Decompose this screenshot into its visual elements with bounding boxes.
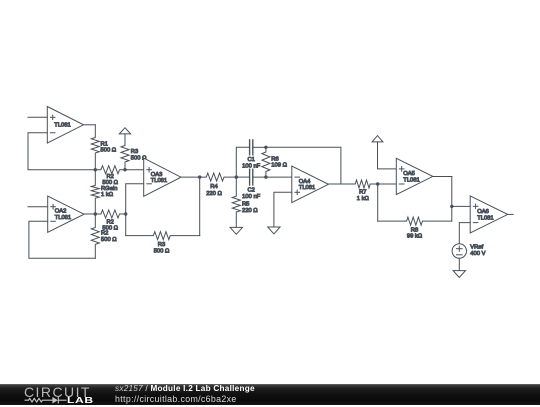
wire OA4 non-inverting input to ground bbox=[274, 192, 292, 227]
wire OA5 feedback down leg bbox=[377, 184, 379, 221]
wire C2 to OA4 inverting input bbox=[253, 176, 292, 178]
resistor R2 500 Ohm (horizontal, node B to OA3 - net) bbox=[95, 210, 125, 231]
logo diode symbol bbox=[52, 397, 58, 404]
logo schematic line (resistor + diode) bbox=[24, 394, 68, 407]
op-amp OA2 (TL081) bbox=[48, 196, 84, 232]
wire C1 to R6 top bbox=[253, 146, 266, 148]
svg-text:OA5: OA5 bbox=[403, 171, 415, 177]
svg-text:TL081: TL081 bbox=[403, 177, 419, 183]
svg-text:109 Ω: 109 Ω bbox=[271, 163, 287, 169]
svg-text:R4: R4 bbox=[210, 184, 218, 190]
capacitor C2 100 nF bbox=[242, 169, 261, 200]
svg-text:100 nF: 100 nF bbox=[242, 194, 261, 200]
svg-text:R2: R2 bbox=[101, 231, 108, 237]
svg-text:TL081: TL081 bbox=[55, 215, 71, 221]
node A junction (R1/RGain/R2) bbox=[94, 168, 97, 171]
svg-text:OA4: OA4 bbox=[299, 179, 311, 185]
svg-text:100 nF: 100 nF bbox=[242, 164, 261, 170]
op-amp OA4 (TL081, inverting on top) bbox=[292, 166, 329, 203]
svg-text:OA3: OA3 bbox=[151, 172, 163, 178]
junction R2 into OA3 feedback net bbox=[124, 212, 127, 215]
CircuitLab logo wordmark CIRCUIT bbox=[24, 385, 91, 399]
svg-text:R2: R2 bbox=[106, 174, 113, 180]
resistor R3 500 Ohm (horizontal feedback of OA3) bbox=[126, 232, 200, 255]
wire OA1 feedback (inverting input to node A) bbox=[28, 133, 95, 170]
svg-text:R8: R8 bbox=[411, 228, 418, 234]
wire OA1 output bbox=[84, 124, 96, 126]
wire OA4 output bbox=[328, 183, 341, 185]
svg-text:TL081: TL081 bbox=[299, 185, 315, 191]
junction R6 top bbox=[264, 146, 267, 149]
svg-text:500 Ω: 500 Ω bbox=[154, 249, 170, 255]
footer url text bbox=[115, 395, 237, 403]
svg-text:500 Ω: 500 Ω bbox=[101, 148, 117, 154]
wire R7 junction to OA5 inverting input bbox=[378, 183, 397, 185]
svg-text:1 kΩ: 1 kΩ bbox=[357, 196, 370, 202]
wire OA6 output stub bbox=[508, 213, 513, 215]
wire OA2 non-inverting input stub bbox=[28, 206, 48, 208]
wire OA5 output down to R8 bbox=[451, 177, 453, 222]
wire OA3 feedback vertical to output bbox=[199, 177, 201, 236]
op-amp OA1 (TL081) bbox=[47, 107, 83, 144]
power flag arrow above R3 bbox=[119, 128, 130, 134]
svg-text:C1: C1 bbox=[247, 157, 254, 163]
svg-text:R7: R7 bbox=[359, 190, 366, 196]
svg-text:VRef: VRef bbox=[470, 245, 483, 251]
resistor R1 500 Ohm (vertical) bbox=[91, 125, 116, 170]
svg-text:1 kΩ: 1 kΩ bbox=[101, 192, 114, 198]
svg-text:TL081: TL081 bbox=[477, 215, 493, 221]
wire OA3 inverting input bbox=[126, 184, 144, 236]
svg-text:R6: R6 bbox=[271, 156, 278, 162]
wire OA6 inverting input to VRef bbox=[459, 223, 470, 244]
capacitor C1 100 nF bbox=[242, 140, 261, 170]
svg-text:TL081: TL081 bbox=[151, 178, 167, 184]
junction OA3 output node bbox=[198, 175, 201, 178]
wire to OA6 non-inverting input bbox=[452, 205, 470, 207]
junction R6 bottom bbox=[264, 175, 267, 178]
footer title text bbox=[115, 385, 255, 393]
svg-text:OA6: OA6 bbox=[477, 209, 489, 215]
svg-text:400 V: 400 V bbox=[470, 251, 485, 257]
wire OA3 output bbox=[181, 176, 200, 178]
ground below VRef bbox=[453, 271, 465, 278]
svg-text:220 Ω: 220 Ω bbox=[206, 191, 222, 197]
wire OA5 output bbox=[433, 176, 452, 178]
power flag arrow at OA5 non-inverting input bbox=[372, 136, 383, 142]
resistor R2 500 Ohm (vertical, node B to OA2 inverting) bbox=[91, 214, 117, 258]
ground below R5 bbox=[230, 227, 242, 234]
logo resistor squiggle bbox=[25, 398, 53, 402]
svg-text:C2: C2 bbox=[247, 188, 254, 194]
wire OA2 output to node B bbox=[84, 213, 95, 215]
junction OA6 non-inverting tap bbox=[450, 205, 453, 208]
svg-text:R1: R1 bbox=[101, 141, 108, 147]
resistor RGain 1 kOhm (vertical) bbox=[91, 170, 117, 214]
voltage source VRef 400 V bbox=[452, 244, 485, 258]
op-amp OA5 (TL081) bbox=[396, 158, 433, 194]
footer bar bbox=[0, 384, 540, 405]
svg-text:R2: R2 bbox=[106, 219, 113, 225]
wire OA1 non-inverting input stub bbox=[28, 116, 47, 118]
svg-text:99 kΩ: 99 kΩ bbox=[407, 234, 423, 240]
resistor R2 500 Ohm (horizontal, node A to OA3 +) bbox=[95, 166, 143, 186]
resistor R6 109 Ohm (vertical) bbox=[262, 147, 288, 177]
resistor R7 1 kOhm (horizontal) bbox=[341, 180, 378, 202]
resistor R4 220 Ohm (horizontal) bbox=[200, 173, 237, 197]
svg-text:TL081: TL081 bbox=[54, 123, 70, 129]
svg-text:R3: R3 bbox=[131, 149, 138, 155]
resistor R5 220 Ohm (vertical to ground) bbox=[232, 177, 258, 227]
resistor R3 500 Ohm (vertical, from power flag) bbox=[121, 134, 147, 170]
wire node C up to C1 branch bbox=[236, 147, 249, 177]
wire power flag to OA5 non-inverting input bbox=[378, 142, 397, 169]
node C junction (R4/C1/C2/R5) bbox=[235, 175, 238, 178]
node B junction (OA2 out / RGain / R2s) bbox=[94, 212, 97, 215]
svg-text:R5: R5 bbox=[242, 202, 249, 208]
op-amp OA3 (TL081) bbox=[144, 158, 181, 196]
junction R3 bottom bbox=[123, 168, 126, 171]
svg-text:OA2: OA2 bbox=[55, 209, 67, 215]
wire node C to C2 bbox=[236, 176, 249, 178]
wire VRef to ground bbox=[458, 258, 460, 270]
svg-text:R3: R3 bbox=[158, 242, 165, 248]
svg-text:220 Ω: 220 Ω bbox=[242, 208, 258, 214]
wire top branch to OA4 output bbox=[266, 147, 341, 184]
wire OA2 feedback (inverting input to R2 bottom) bbox=[29, 221, 95, 258]
junction R7 / OA5 inverting bbox=[376, 182, 379, 185]
svg-text:RGain: RGain bbox=[101, 186, 117, 192]
CircuitLab logo wordmark LAB bbox=[67, 397, 94, 405]
resistor R8 99 kOhm (horizontal feedback) bbox=[378, 217, 452, 240]
op-amp OA6 (TL081) bbox=[470, 196, 508, 233]
svg-text:500 Ω: 500 Ω bbox=[101, 237, 117, 243]
ground at OA4 non-inverting input bbox=[268, 227, 280, 234]
